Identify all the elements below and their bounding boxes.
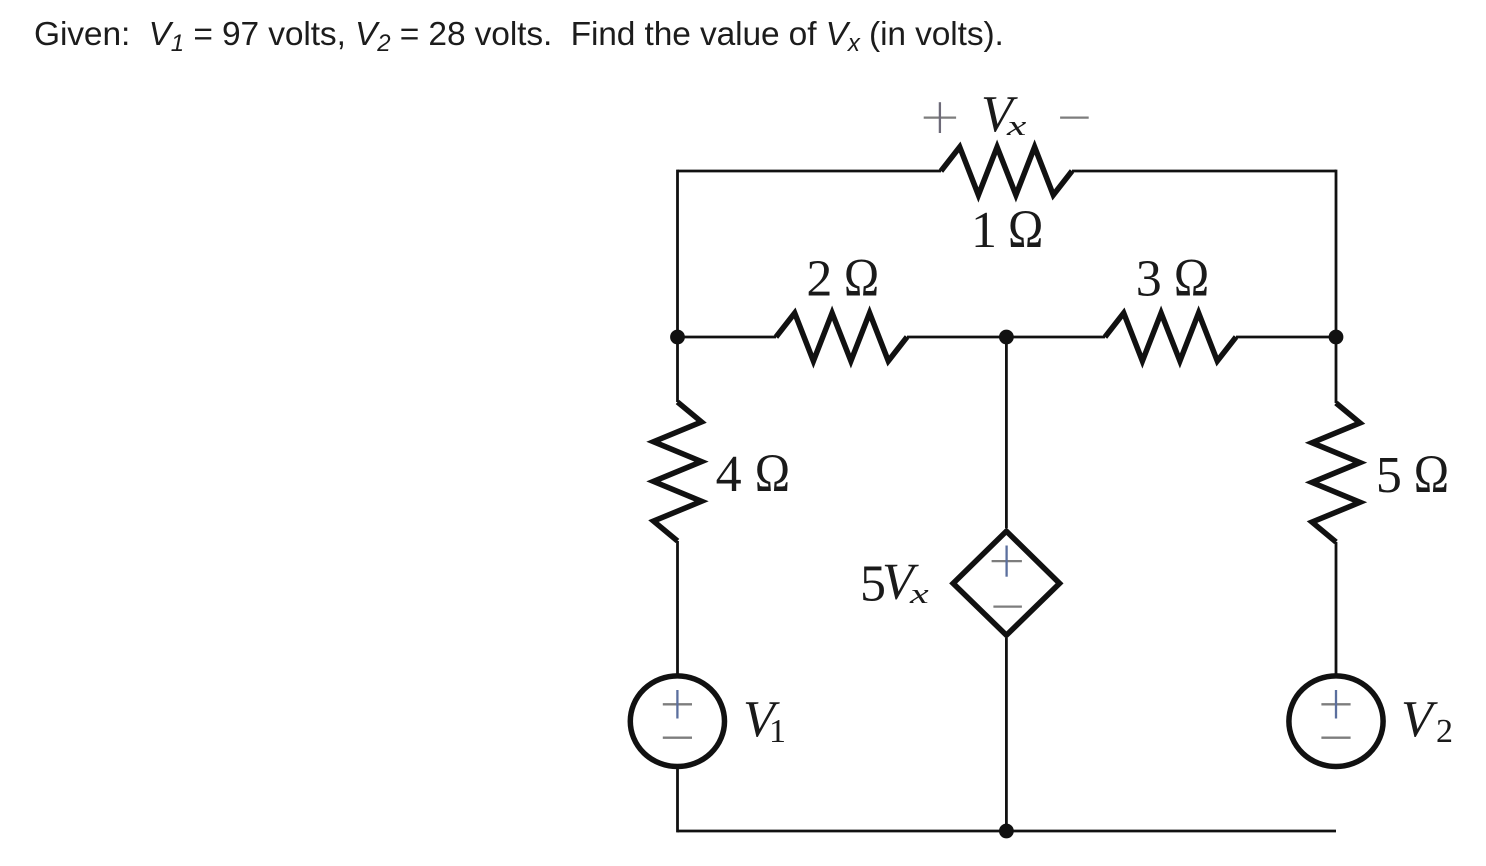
wire middle branch lower segment: [1005, 638, 1008, 831]
svg-text:Ω: Ω: [1174, 249, 1209, 308]
minus sign inside diamond: [993, 605, 1022, 607]
svg-text:Ω: Ω: [755, 444, 790, 503]
voltage source V2 circle: [1289, 676, 1383, 767]
resistor R2 2-ohm zigzag: [776, 313, 907, 361]
plus sign inside V2: [1321, 690, 1350, 719]
svg-text:x: x: [1006, 109, 1027, 141]
svg-text:Ω: Ω: [844, 249, 879, 308]
node dot left middle: [670, 330, 685, 345]
svg-text:Ω: Ω: [1008, 200, 1043, 259]
node dot bottom center: [999, 824, 1014, 839]
resistor R5 5-ohm zigzag: [1312, 403, 1360, 542]
wire right rail middle segment: [1335, 542, 1338, 675]
node dot center middle: [999, 330, 1014, 345]
plus sign inside diamond: [992, 546, 1022, 577]
svg-text:1: 1: [769, 713, 786, 750]
minus sign inside V1: [663, 737, 692, 739]
node dot right middle: [1329, 330, 1344, 345]
wire left rail top segment: [676, 170, 679, 402]
wire middle right segment: [1236, 336, 1336, 339]
svg-text:5: 5: [1376, 447, 1402, 504]
svg-text:x: x: [909, 577, 929, 609]
wire middle center segment: [907, 336, 1105, 339]
resistor R4 4-ohm zigzag: [654, 402, 702, 541]
wire middle branch upper segment: [1005, 337, 1008, 528]
plus sign of Vx label: [924, 102, 956, 133]
wire left rail bottom segment: [676, 768, 679, 833]
minus sign inside V2: [1321, 737, 1350, 739]
wire top left segment: [678, 170, 942, 173]
svg-text:3: 3: [1136, 250, 1162, 307]
svg-text:1: 1: [971, 202, 997, 259]
svg-text:V: V: [1401, 691, 1438, 748]
wire right rail top segment: [1335, 170, 1338, 403]
resistor R3 3-ohm zigzag: [1105, 313, 1236, 361]
wire left rail middle segment: [676, 541, 679, 675]
svg-text:2: 2: [1436, 713, 1453, 750]
svg-text:2: 2: [806, 250, 832, 307]
svg-text:4: 4: [716, 446, 742, 503]
wire middle left segment: [678, 336, 777, 339]
problem statement title: [34, 16, 1004, 54]
plus sign inside V1: [663, 690, 692, 719]
minus sign of Vx label: [1060, 116, 1089, 118]
voltage source V1 circle: [630, 676, 724, 767]
dependent source 5Vx diamond: [953, 531, 1060, 635]
resistor R1 1-ohm zigzag: [941, 147, 1072, 195]
svg-text:Ω: Ω: [1414, 445, 1449, 504]
wire bottom rail: [678, 830, 1337, 833]
wire top right segment: [1072, 170, 1336, 173]
